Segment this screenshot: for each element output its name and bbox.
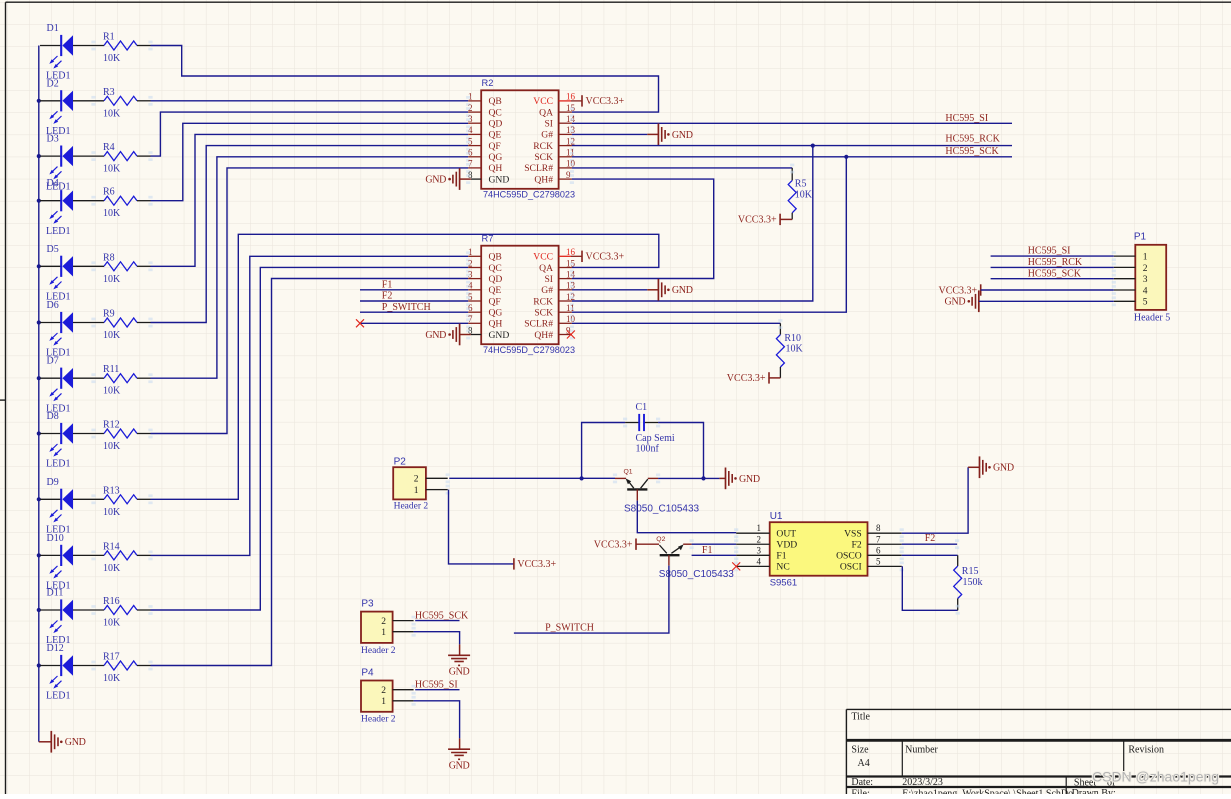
svg-text:QA: QA <box>539 263 553 274</box>
svg-text:VCC: VCC <box>533 252 553 263</box>
svg-text:P2: P2 <box>394 456 407 467</box>
power VCC3.3+ (R5) <box>738 214 792 226</box>
svg-text:GND: GND <box>993 463 1014 474</box>
net label HC595_SI <box>945 113 988 124</box>
LED D12 <box>37 643 104 702</box>
wire R9 to shift register <box>151 146 469 323</box>
svg-text:OUT: OUT <box>776 529 796 540</box>
LED D9 <box>37 477 104 536</box>
net label HC595_SCK (P1) <box>1028 268 1082 279</box>
svg-text:P4: P4 <box>361 668 374 679</box>
svg-text:2: 2 <box>381 617 386 627</box>
power VCC3.3+ (Q2 emitter) <box>594 539 659 551</box>
power VCC3.3+ (R10) <box>727 372 781 384</box>
svg-text:HC595_RCK: HC595_RCK <box>1028 257 1083 268</box>
svg-text:R17: R17 <box>103 652 120 663</box>
svg-text:P_SWITCH: P_SWITCH <box>545 622 594 633</box>
IC U1 S9561 <box>734 511 904 588</box>
svg-text:NC: NC <box>776 562 789 573</box>
svg-text:VCC3.3+: VCC3.3+ <box>594 540 633 551</box>
svg-text:10K: 10K <box>103 274 121 285</box>
svg-text:D1: D1 <box>47 23 59 34</box>
svg-text:Size: Size <box>851 745 869 756</box>
wire F1 to U1 pin3 <box>692 554 737 556</box>
svg-text:R4: R4 <box>103 142 115 153</box>
svg-text:QB: QB <box>489 96 502 107</box>
wire HC595_SI to P1 pin1 <box>991 255 1114 257</box>
connector P4 Header 2 <box>361 668 416 725</box>
svg-text:QG: QG <box>489 308 503 319</box>
svg-text:GND: GND <box>65 737 86 748</box>
net label HC595_SI (P4) <box>415 679 458 690</box>
wire C1 left to Q1 emitter node <box>582 423 626 479</box>
wire SCK to R7 pin11 <box>572 157 846 312</box>
net label F2 <box>382 291 393 302</box>
junction C1 right <box>701 476 705 480</box>
capacitor C1 100nf <box>623 402 675 454</box>
svg-text:P_SWITCH: P_SWITCH <box>382 302 431 313</box>
svg-text:GND: GND <box>425 330 446 341</box>
wire VCC3.3+ to P1 pin4 <box>981 289 1114 291</box>
LED D8 <box>37 411 104 470</box>
svg-text:HC595_SI: HC595_SI <box>415 679 458 690</box>
wire R3 to shift register <box>151 100 469 102</box>
svg-text:R3: R3 <box>103 87 115 98</box>
junction RCK <box>811 144 815 148</box>
svg-text:10K: 10K <box>103 208 121 219</box>
resistor R8 10K <box>103 252 153 285</box>
svg-text:100nf: 100nf <box>636 444 660 455</box>
wire HC595_RCK to P1 pin2 <box>991 266 1114 268</box>
svg-text:QD: QD <box>489 119 503 130</box>
svg-text:R9: R9 <box>103 309 115 320</box>
wire HC595_SCK bus <box>572 156 1012 158</box>
svg-text:HC595_SCK: HC595_SCK <box>415 610 469 621</box>
svg-text:10K: 10K <box>103 673 121 684</box>
resistor R13 10K <box>103 485 153 518</box>
power VCC3.3+ (P1 pin4) <box>938 284 980 296</box>
svg-text:E:\zhao1peng_WorkSpace\ \Sheet: E:\zhao1peng_WorkSpace\ \Sheet1.SchDo <box>902 789 1073 795</box>
svg-text:GND: GND <box>489 330 510 341</box>
LED D3 <box>37 134 104 193</box>
resistor R16 10K <box>103 596 153 629</box>
resistor R15 150k <box>954 539 983 614</box>
svg-text:R16: R16 <box>103 596 120 607</box>
wire P2 pin1 to VCC3.3+ <box>449 490 514 564</box>
svg-text:GND: GND <box>489 174 510 185</box>
svg-text:10K: 10K <box>103 441 121 452</box>
svg-text:R8: R8 <box>103 252 115 263</box>
svg-text:10K: 10K <box>103 164 121 175</box>
LED D7 <box>37 356 104 415</box>
svg-text:QC: QC <box>489 263 502 274</box>
svg-text:OSCI: OSCI <box>840 562 862 573</box>
svg-text:A4: A4 <box>858 758 870 769</box>
svg-text:D5: D5 <box>47 244 59 255</box>
ground GND (Q1) <box>719 468 759 490</box>
LED D5 <box>37 244 104 303</box>
svg-text:Date:: Date: <box>851 777 873 788</box>
wire R14 to shift register <box>151 256 469 555</box>
svg-text:1: 1 <box>414 486 419 496</box>
svg-text:R6: R6 <box>103 187 115 198</box>
svg-text:F2: F2 <box>925 533 936 544</box>
no-ERC marker R7 pin7 <box>356 319 364 327</box>
svg-text:QH: QH <box>489 163 503 174</box>
wire RCK to R7 pin12 <box>572 146 813 301</box>
svg-text:QE: QE <box>489 285 502 296</box>
LED D1 <box>40 23 104 82</box>
svg-text:150k: 150k <box>963 577 983 588</box>
svg-text:P3: P3 <box>361 598 374 609</box>
svg-text:VCC3.3+: VCC3.3+ <box>586 96 625 107</box>
resistor R12 10K <box>103 420 153 453</box>
svg-text:1: 1 <box>381 697 386 707</box>
watermark <box>1092 769 1219 785</box>
svg-text:Header 2: Header 2 <box>394 501 429 511</box>
svg-text:OSCO: OSCO <box>836 551 862 562</box>
svg-text:2023/3/23: 2023/3/23 <box>902 777 943 788</box>
wire R11 to shift register <box>151 157 469 378</box>
svg-text:10K: 10K <box>103 563 121 574</box>
svg-text:QA: QA <box>539 107 553 118</box>
power VCC3.3+ (R2 pin16) <box>582 95 625 107</box>
svg-text:D8: D8 <box>47 411 59 422</box>
wire P4 pin2 HC595_SI <box>415 689 459 691</box>
svg-text:LED1: LED1 <box>46 459 70 470</box>
svg-text:GND: GND <box>449 761 470 772</box>
svg-text:HC595_SI: HC595_SI <box>1028 246 1071 257</box>
svg-text:G#: G# <box>541 130 553 141</box>
net label P_SWITCH (R7 pin6) <box>382 302 431 313</box>
svg-text:HC595_SI: HC595_SI <box>945 113 988 124</box>
net label F2 (U1) <box>925 533 936 544</box>
svg-text:Header 2: Header 2 <box>361 646 396 656</box>
svg-text:VCC3.3+: VCC3.3+ <box>586 252 625 263</box>
wire HC595_RCK bus <box>572 145 1012 147</box>
svg-text:R14: R14 <box>103 541 120 552</box>
svg-text:GND: GND <box>449 667 470 678</box>
svg-text:CSDN @zhao1peng: CSDN @zhao1peng <box>1092 769 1219 785</box>
wire P2 pin2 to Q1 emitter <box>449 477 615 479</box>
svg-text:3: 3 <box>757 545 762 555</box>
resistor R4 10K <box>103 142 153 175</box>
svg-text:1: 1 <box>1143 253 1148 263</box>
resistor R9 10K <box>103 309 153 342</box>
ground GND (P3) <box>448 644 470 677</box>
power VCC3.3+ (P2) <box>514 558 557 570</box>
svg-text:SCLR#: SCLR# <box>524 319 553 330</box>
svg-text:Drawn By:: Drawn By: <box>1072 788 1116 794</box>
svg-text:8: 8 <box>876 523 881 533</box>
wire R6 to shift register <box>151 123 469 200</box>
svg-text:D2: D2 <box>47 78 59 89</box>
svg-text:VCC3.3+: VCC3.3+ <box>938 285 977 296</box>
junction SCK <box>844 155 848 159</box>
no-ERC marker R7 pin9 QH# <box>567 331 575 339</box>
ground GND (R2 pin8) <box>425 168 470 190</box>
svg-text:16: 16 <box>566 247 576 257</box>
svg-text:F1: F1 <box>702 545 713 556</box>
svg-text:5: 5 <box>876 556 881 566</box>
svg-text:74HC595D_C2798023: 74HC595D_C2798023 <box>483 190 575 200</box>
wire P_SWITCH (R7 pin6) <box>360 311 468 313</box>
svg-text:10K: 10K <box>103 108 121 119</box>
svg-text:HC595_SCK: HC595_SCK <box>1028 268 1082 279</box>
svg-text:2: 2 <box>414 475 419 485</box>
svg-text:GND: GND <box>672 130 693 141</box>
svg-text:6: 6 <box>876 545 881 555</box>
wire R12 to shift register <box>151 168 469 434</box>
svg-text:1: 1 <box>381 628 386 638</box>
wire P_SWITCH to Q2 base <box>514 566 669 634</box>
resistor R6 10K <box>103 187 153 220</box>
wire SCLR# to R5 <box>572 167 792 169</box>
ground GND (P4) <box>448 738 470 771</box>
power VCC3.3+ (R7 pin16) <box>582 251 625 263</box>
svg-text:VSS: VSS <box>844 529 862 540</box>
LED D2 <box>37 78 104 137</box>
resistor R3 10K <box>103 87 153 120</box>
wire OSCI to R15 bottom <box>902 566 957 610</box>
wire F2 (U1 pin7) <box>902 543 957 545</box>
svg-text:R13: R13 <box>103 485 120 496</box>
svg-text:R11: R11 <box>103 364 119 375</box>
svg-text:10K: 10K <box>786 344 804 355</box>
svg-text:QH: QH <box>489 319 503 330</box>
ground GND (R2 pin13 G#) <box>572 124 693 146</box>
svg-text:Number: Number <box>905 745 938 756</box>
transistor Q1 S8050 <box>613 469 700 515</box>
svg-text:QC: QC <box>489 107 502 118</box>
svg-text:G#: G# <box>541 285 553 296</box>
svg-text:U1: U1 <box>770 511 783 522</box>
net label F1 <box>382 280 393 291</box>
resistor R17 10K <box>103 652 153 685</box>
svg-text:Q1: Q1 <box>624 469 633 476</box>
ground GND (P1 pin5) <box>945 290 979 312</box>
svg-text:QD: QD <box>489 274 503 285</box>
net label HC595_SI (P1) <box>1028 246 1071 257</box>
svg-text:74HC595D_C2798023: 74HC595D_C2798023 <box>483 345 575 355</box>
wire F1 (R7 pin4) <box>360 289 468 291</box>
net label F1 (U1) <box>702 545 713 556</box>
svg-text:GND: GND <box>672 285 693 296</box>
title block <box>846 709 1231 799</box>
svg-text:R1: R1 <box>103 32 115 43</box>
wire QH# R2 to SI R7 <box>572 179 714 278</box>
svg-text:10K: 10K <box>103 386 121 397</box>
wire R1 to shift register <box>151 46 659 113</box>
wire P4 pin1 to ground <box>414 701 460 739</box>
svg-text:7: 7 <box>876 534 881 544</box>
svg-text:QG: QG <box>489 152 503 163</box>
net label P_SWITCH <box>545 622 594 633</box>
svg-text:S8050_C105433: S8050_C105433 <box>624 504 700 515</box>
wire Q2 collector to U1 VDD <box>692 543 737 545</box>
net label HC595_RCK (P1) <box>1028 257 1083 268</box>
svg-text:R2: R2 <box>482 78 494 88</box>
svg-text:QH#: QH# <box>534 174 553 185</box>
svg-text:4: 4 <box>757 556 762 566</box>
svg-text:VCC3.3+: VCC3.3+ <box>517 559 556 570</box>
svg-text:R12: R12 <box>103 420 120 431</box>
no-ERC marker U1 pin4 NC <box>732 562 740 570</box>
svg-text:QF: QF <box>489 141 501 152</box>
svg-text:RCK: RCK <box>533 141 553 152</box>
svg-text:Title: Title <box>851 711 870 722</box>
svg-text:D10: D10 <box>47 533 64 544</box>
svg-text:Header 5: Header 5 <box>1134 313 1170 324</box>
wire GND to P1 pin5 <box>979 300 1114 302</box>
svg-text:5: 5 <box>1143 298 1148 308</box>
svg-text:D11: D11 <box>47 588 64 599</box>
svg-text:VDD: VDD <box>776 540 797 551</box>
svg-text:GND: GND <box>739 474 760 485</box>
LED D4 <box>37 178 104 237</box>
svg-text:16: 16 <box>566 92 576 102</box>
svg-text:F1: F1 <box>382 280 393 291</box>
wire F2 (R7 pin5) <box>360 300 468 302</box>
connector P2 Header 2 <box>393 456 450 511</box>
ground GND (R7 pin13 G#) <box>572 279 693 301</box>
wire SCLR# R7 to R10 <box>572 322 781 324</box>
svg-text:VCC3.3+: VCC3.3+ <box>738 215 777 226</box>
svg-text:P1: P1 <box>1134 232 1147 243</box>
transistor Q2 S8050 <box>656 536 734 580</box>
svg-text:VCC: VCC <box>533 96 553 107</box>
ground GND (U1 VSS) <box>968 456 1014 478</box>
connector P1 Header 5 <box>1112 232 1171 324</box>
connector P3 Header 2 <box>361 598 416 656</box>
wire U1 VSS to ground <box>902 467 968 533</box>
svg-text:HC595_RCK: HC595_RCK <box>945 134 1000 145</box>
wire R17 to shift register <box>151 279 469 666</box>
svg-text:HC595_SCK: HC595_SCK <box>945 146 999 157</box>
wire OSCO to R15 <box>902 554 958 556</box>
svg-text:2: 2 <box>757 534 762 544</box>
svg-text:D12: D12 <box>47 643 64 654</box>
svg-text:D9: D9 <box>47 477 59 488</box>
wire R13 to shift register <box>151 234 659 499</box>
svg-text:R15: R15 <box>962 566 979 577</box>
svg-text:S8050_C105433: S8050_C105433 <box>659 569 735 580</box>
svg-text:R5: R5 <box>795 179 807 190</box>
resistor R11 10K <box>103 364 153 397</box>
svg-text:10K: 10K <box>103 618 121 629</box>
resistor R14 10K <box>103 541 153 574</box>
svg-text:QH#: QH# <box>534 330 553 341</box>
svg-text:D3: D3 <box>47 134 59 145</box>
svg-text:LED1: LED1 <box>46 226 70 237</box>
svg-text:QF: QF <box>489 296 501 307</box>
svg-text:File:: File: <box>851 789 869 795</box>
svg-text:C1: C1 <box>636 402 648 413</box>
svg-text:D6: D6 <box>47 300 59 311</box>
svg-text:D7: D7 <box>47 356 59 367</box>
net label HC595_RCK <box>945 134 1000 145</box>
wire HC595_SI bus <box>572 122 1012 124</box>
LED D10 <box>37 533 104 592</box>
svg-text:R7: R7 <box>482 234 494 244</box>
wire P3 pin2 HC595_SCK <box>415 620 459 622</box>
wire Q1 collector to ground <box>658 477 719 479</box>
ground GND (LED bus) <box>39 731 86 753</box>
svg-text:QE: QE <box>489 130 502 141</box>
wire GND bus (LED cathodes) <box>38 46 40 742</box>
svg-text:SI: SI <box>544 274 553 285</box>
svg-text:GND: GND <box>425 175 446 186</box>
svg-text:GND: GND <box>945 297 966 308</box>
svg-text:2: 2 <box>1143 264 1148 274</box>
LED D6 <box>37 300 104 359</box>
svg-text:2: 2 <box>381 686 386 696</box>
LED D11 <box>37 588 104 647</box>
shift register R2 74HC595D <box>466 78 582 199</box>
svg-text:Q2: Q2 <box>656 536 665 543</box>
svg-text:LED1: LED1 <box>46 691 70 702</box>
svg-text:10K: 10K <box>795 190 813 201</box>
shift register R7 74HC595D <box>466 234 582 355</box>
svg-text:1: 1 <box>757 523 762 533</box>
ground GND (R7 pin8) <box>425 324 470 346</box>
wire R16 to shift register <box>151 267 469 610</box>
svg-text:10K: 10K <box>103 53 121 64</box>
svg-text:R10: R10 <box>784 333 801 344</box>
net label HC595_SCK (P3) <box>415 610 469 621</box>
wire C1 right to Q1 collector node <box>658 423 703 479</box>
svg-text:3: 3 <box>1143 275 1148 285</box>
net label HC595_SCK <box>945 146 999 157</box>
svg-text:D4: D4 <box>47 178 59 189</box>
svg-text:S9561: S9561 <box>770 578 797 589</box>
wire R4 to shift register <box>151 112 469 156</box>
svg-text:SCK: SCK <box>534 308 553 319</box>
svg-text:SI: SI <box>544 119 553 130</box>
resistor R10 10K <box>776 319 803 378</box>
wire Q1 base to U1 OUT <box>637 501 736 533</box>
svg-text:QB: QB <box>489 252 502 263</box>
resistor R5 10K <box>788 164 813 220</box>
svg-text:F2: F2 <box>852 540 862 551</box>
svg-text:10K: 10K <box>103 330 121 341</box>
svg-text:SCLR#: SCLR# <box>524 163 553 174</box>
wire R8 to shift register <box>151 134 469 266</box>
svg-text:F2: F2 <box>382 291 393 302</box>
junction C1 left <box>580 476 584 480</box>
resistor R1 10K <box>103 32 153 65</box>
svg-text:10K: 10K <box>103 507 121 518</box>
wire P3 pin1 to ground <box>414 632 460 645</box>
svg-text:Revision: Revision <box>1128 745 1164 756</box>
svg-text:VCC3.3+: VCC3.3+ <box>727 373 766 384</box>
svg-text:SCK: SCK <box>534 152 553 163</box>
svg-text:Header 2: Header 2 <box>361 715 396 725</box>
svg-text:RCK: RCK <box>533 296 553 307</box>
svg-text:F1: F1 <box>776 551 786 562</box>
wire HC595_SCK to P1 pin3 <box>991 278 1114 280</box>
svg-text:4: 4 <box>1143 286 1148 296</box>
wire R7 pin7 (no connect) <box>360 322 468 324</box>
